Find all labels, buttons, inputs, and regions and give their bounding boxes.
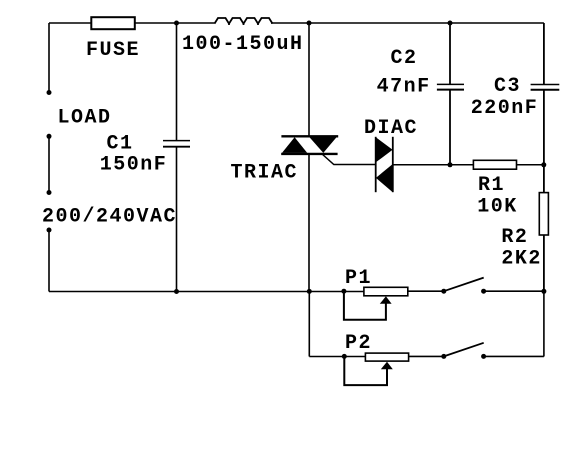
svg-text:C1: C1 [107, 132, 134, 155]
junction switch S1 right [481, 289, 486, 294]
node load bottom [47, 134, 52, 139]
svg-text:150nF: 150nF [100, 153, 168, 176]
switch S2 [444, 343, 484, 357]
node load top [47, 90, 52, 95]
svg-text:100-150uH: 100-150uH [182, 33, 304, 56]
triac Q1 [281, 23, 338, 292]
wire left column middle (load terminal to source terminal) [48, 136, 50, 192]
junction P2 left [342, 354, 347, 359]
svg-text:P2: P2 [345, 332, 372, 355]
svg-text:R1: R1 [478, 174, 505, 197]
junction bottom right at R2 [541, 289, 546, 294]
junction switch S1 left [441, 289, 446, 294]
capacitor C1 [163, 23, 190, 292]
capacitor C3 [531, 23, 560, 165]
wire bottom rail P1 to switch S1 [408, 290, 444, 292]
wire P2 branch vertical [308, 292, 310, 357]
wire P2 row left [309, 356, 365, 358]
svg-text:R2: R2 [501, 226, 528, 249]
wire top rail right (inductor to top-right corner) [271, 22, 544, 24]
junction bottom at triac [307, 289, 312, 294]
wire left column upper (top corner down to load terminal) [48, 23, 50, 93]
wire right column P2 to P1 row [543, 291, 545, 356]
svg-text:P1: P1 [345, 267, 372, 290]
potentiometer P2 [344, 353, 408, 385]
resistor R2 [539, 165, 548, 291]
node source top [47, 190, 52, 195]
resistor R1 [473, 160, 516, 169]
wire R1 to right column [517, 164, 544, 166]
junction gate at C2 [448, 162, 453, 167]
svg-text:10K: 10K [477, 196, 518, 219]
wire top rail left (AC top to fuse and to inductor) [49, 22, 215, 24]
wire diac to R1 [393, 164, 474, 166]
diac D1 [376, 137, 393, 192]
svg-text:220nF: 220nF [471, 97, 539, 120]
svg-text:C3: C3 [494, 75, 521, 98]
junction bottom at C1 [174, 289, 179, 294]
svg-text:200/240VAC: 200/240VAC [42, 206, 177, 229]
wire left column lower (source terminal to bottom rail) [48, 230, 50, 292]
wire switch S2 to right column [484, 355, 544, 357]
fuse F1 [91, 17, 135, 29]
junction switch S2 left [441, 354, 446, 359]
svg-text:DIAC: DIAC [364, 117, 418, 140]
svg-text:47nF: 47nF [377, 75, 431, 98]
svg-text:TRIAC: TRIAC [231, 161, 299, 184]
svg-text:2K2: 2K2 [501, 248, 542, 271]
wire triac gate [323, 155, 376, 165]
capacitor C2 [437, 23, 464, 165]
inductor L1 [215, 18, 273, 25]
wire P2 to switch S2 [409, 355, 444, 357]
junction top at C1 [174, 21, 179, 26]
junction gate at R1 right [541, 162, 546, 167]
svg-text:C2: C2 [391, 47, 418, 70]
wire bottom rail left [49, 291, 364, 293]
potentiometer P1 [344, 287, 408, 319]
junction switch S2 right [481, 354, 486, 359]
junction P1 left [341, 289, 346, 294]
svg-text:FUSE: FUSE [86, 39, 140, 62]
junction top at triac [307, 21, 312, 26]
switch S1 [444, 278, 484, 292]
junction top at C2 [448, 21, 453, 26]
svg-text:LOAD: LOAD [58, 106, 112, 129]
node source bottom [47, 228, 52, 233]
wire bottom rail switch S1 to right column [484, 290, 544, 292]
